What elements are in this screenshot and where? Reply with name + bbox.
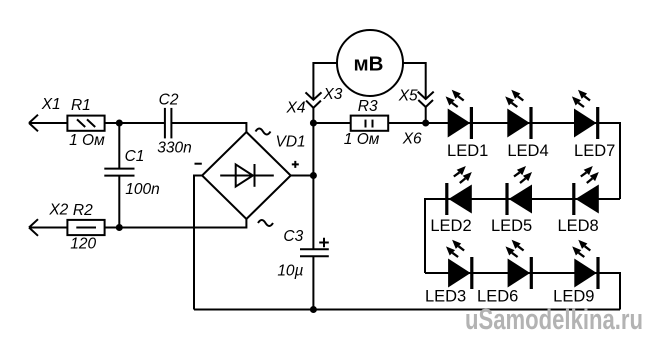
svg-text:1 Ом: 1 Ом xyxy=(344,131,380,148)
wire bottom rail xyxy=(194,309,620,311)
svg-text:LED5: LED5 xyxy=(491,217,532,235)
LED4 xyxy=(505,90,531,139)
LED9 xyxy=(572,240,598,289)
resistor R2 xyxy=(67,220,104,235)
wire LED row 3 xyxy=(425,273,620,310)
connector X1 xyxy=(29,115,38,132)
wire node A to C2 xyxy=(119,122,165,124)
junction node C xyxy=(310,172,317,179)
svg-text:X5: X5 xyxy=(398,87,418,104)
wire bridge minus to bottom rail xyxy=(194,176,202,310)
wire meter to X5 xyxy=(403,63,426,99)
connector X2 xyxy=(29,219,38,236)
svg-text:120: 120 xyxy=(70,236,96,253)
svg-text:LED7: LED7 xyxy=(574,142,615,160)
LED5 xyxy=(507,166,532,215)
AC tilde top xyxy=(256,129,271,135)
wire R3 to node E xyxy=(388,122,426,124)
junction node A xyxy=(116,120,123,127)
svg-text:330n: 330n xyxy=(157,140,191,157)
svg-text:VD1: VD1 xyxy=(276,134,306,151)
wire node B to bridge bottom xyxy=(119,219,246,228)
junction node B xyxy=(116,224,123,231)
LED3 xyxy=(446,240,472,289)
svg-text:1 Ом: 1 Ом xyxy=(69,132,105,149)
capacitor C3 xyxy=(300,176,329,310)
svg-text:X4: X4 xyxy=(286,100,306,117)
junction node D xyxy=(310,120,317,127)
wire LED row 2 xyxy=(425,199,620,273)
svg-text:LED3: LED3 xyxy=(425,288,466,306)
svg-text:R2: R2 xyxy=(73,202,93,219)
resistor R1 xyxy=(67,116,104,131)
svg-text:100n: 100n xyxy=(125,181,159,198)
connector X6 xyxy=(418,100,433,107)
svg-text:uSamodelkina.ru: uSamodelkina.ru xyxy=(465,304,643,336)
LED1 xyxy=(446,90,472,139)
svg-text:LED1: LED1 xyxy=(447,142,488,160)
svg-text:LED8: LED8 xyxy=(557,217,598,235)
wire LED row 1 xyxy=(426,123,620,199)
svg-text:C2: C2 xyxy=(159,92,179,109)
capacitor C1 xyxy=(104,123,134,228)
connector X5 xyxy=(418,92,434,99)
plus sign (bridge) xyxy=(292,161,299,168)
wire C2 to bridge top xyxy=(171,123,246,132)
AC tilde bottom xyxy=(258,220,273,226)
capacitor C2 xyxy=(165,108,172,138)
wire R2 to node B xyxy=(105,227,120,229)
wire X6 to node E xyxy=(425,107,427,123)
svg-text:R1: R1 xyxy=(71,97,91,114)
svg-text:R3: R3 xyxy=(358,98,378,115)
svg-text:X6: X6 xyxy=(402,131,422,148)
LED7 xyxy=(572,90,598,139)
svg-text:LED6: LED6 xyxy=(477,288,518,306)
svg-text:C3: C3 xyxy=(283,228,303,245)
wire node D to R3 xyxy=(313,122,350,124)
junction node F xyxy=(310,306,317,313)
wire R1 to node A xyxy=(105,122,120,124)
svg-text:LED4: LED4 xyxy=(507,142,548,160)
millivoltmeter xyxy=(337,30,403,96)
LED2 xyxy=(447,166,472,215)
resistor R3 xyxy=(351,116,389,131)
wire node D to connector X4 xyxy=(312,108,314,123)
svg-text:X1: X1 xyxy=(41,96,61,113)
svg-text:мВ: мВ xyxy=(354,52,384,75)
wire node C to node D xyxy=(312,123,314,176)
connector X4 xyxy=(306,101,321,108)
svg-text:10µ: 10µ xyxy=(277,263,303,280)
minus sign xyxy=(195,163,202,165)
svg-text:X3: X3 xyxy=(322,86,342,103)
LED8 xyxy=(574,166,599,215)
svg-text:C1: C1 xyxy=(125,148,145,165)
svg-text:X2: X2 xyxy=(48,201,68,218)
wire X2 to R2 xyxy=(29,227,67,229)
svg-text:LED9: LED9 xyxy=(553,288,594,306)
svg-text:LED2: LED2 xyxy=(430,217,471,235)
junction node E xyxy=(422,120,429,127)
connector X3 xyxy=(306,92,322,99)
wire X3 to meter xyxy=(313,63,337,100)
wire bridge plus to node C xyxy=(291,175,314,177)
wire X1 to R1 xyxy=(29,122,67,124)
LED6 xyxy=(506,240,532,289)
bridge rectifier VD1 xyxy=(202,132,291,219)
plus sign (C3) xyxy=(319,238,329,248)
